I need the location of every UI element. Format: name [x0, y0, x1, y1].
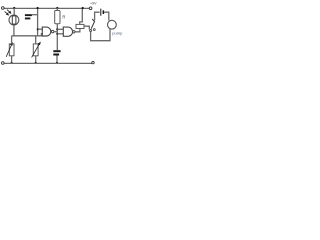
wire battery to pump: [104, 12, 109, 20]
wire U1 output: [54, 31, 57, 33]
variable resistor VR2 box: [33, 44, 38, 56]
wire stub gate2 input B: [57, 33, 63, 35]
relay contact terminal NO: [93, 29, 95, 31]
node C2-0V junction: [56, 62, 58, 64]
terminal bottom-right 0V: [92, 61, 94, 63]
wire bottom 0V rail: [4, 62, 92, 64]
node rail-coil junction: [82, 7, 84, 9]
capacitor C1 plate bottom: [25, 18, 31, 20]
node rail-R junction: [56, 7, 58, 9]
variable resistor VR1 arrow: [6, 43, 12, 57]
wire top +9V rail: [4, 7, 89, 9]
wire LDR top lead: [13, 8, 15, 15]
wire stub to gate 1 input A: [38, 28, 43, 30]
variable resistor VR2 arrow: [32, 43, 41, 58]
svg-text:R: R: [62, 14, 65, 19]
LDR light arrow 2: [7, 10, 11, 14]
wire rail drop at x=37.5: [37, 8, 39, 36]
wire C2 bottom lead: [56, 56, 58, 64]
wire VR1 top lead: [11, 36, 13, 44]
NAND gate U2 bubble: [73, 31, 75, 33]
terminal bottom-left 0V: [2, 62, 5, 65]
variable resistor VR1 box: [9, 44, 14, 56]
wire relay coil to contact: [84, 26, 89, 29]
wire capacitor C1 branch: [32, 14, 38, 16]
wire VR2 bottom lead: [35, 56, 37, 63]
battery B1 short plate: [103, 10, 105, 14]
svg-text:pump: pump: [112, 30, 123, 35]
capacitor C2 plate top: [53, 50, 60, 52]
terminal top-left: [2, 7, 5, 10]
wire R top lead: [56, 8, 58, 11]
svg-text:+9V: +9V: [90, 2, 97, 6]
node gate1 input A junction: [37, 28, 39, 30]
resistor R box: [55, 11, 60, 24]
wire divider node horizontal run to gate 1 input: [12, 34, 43, 36]
relay coil RLA box: [76, 24, 84, 28]
wire VR1 bottom lead: [11, 56, 13, 63]
terminal +9V: [89, 7, 92, 10]
wire U2 output to relay coil: [75, 29, 80, 32]
wire stub gate2 input A: [57, 28, 63, 30]
node VR1-0V junction: [11, 62, 13, 64]
NAND gate U1 body: [42, 27, 51, 36]
battery B1 long plate: [100, 9, 101, 16]
wire LDR bottom lead down to divider node: [13, 25, 15, 36]
relay contact terminal to pump: [90, 30, 92, 32]
node rail-LDR junction: [13, 7, 15, 9]
wire relay coil top lead: [80, 8, 83, 24]
node VR2-0V junction: [35, 62, 37, 64]
wire R bottom to cap C2: [56, 24, 58, 50]
NAND gate U2 body: [63, 27, 72, 36]
wire VR2 top lead: [35, 36, 37, 44]
capacitor C2 plate bottom: [53, 54, 59, 56]
NAND gate U1 bubble: [52, 30, 54, 32]
node rail junction x=37.5: [37, 7, 39, 9]
wire pump return to relay contact: [91, 29, 110, 41]
node gate2 input A junction: [56, 28, 58, 30]
LDR R1 resistor box: [12, 16, 16, 24]
wire battery feed to lever pivot: [95, 12, 100, 20]
relay contact lever: [91, 19, 94, 29]
LDR light arrow 1: [5, 11, 9, 15]
LDR R1 circle envelope: [9, 15, 19, 25]
capacitor C1 plate top: [25, 14, 32, 16]
pump M1 motor circle: [108, 20, 117, 29]
node gate2 input B junction: [56, 33, 58, 35]
